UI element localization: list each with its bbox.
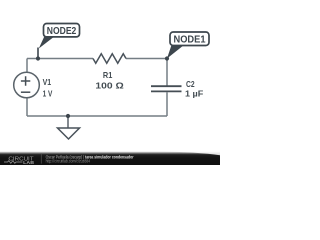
wire right vertical upper <box>166 59 168 86</box>
watermark bar right corner dip <box>158 151 220 155</box>
voltage source V1 <box>14 72 40 98</box>
svg-text:NODE1: NODE1 <box>174 35 206 46</box>
svg-text:http://circuitlab.com/c/zuz884: http://circuitlab.com/c/zuz884 <box>46 159 91 164</box>
ground junction <box>66 114 70 118</box>
svg-text:1 µF: 1 µF <box>185 89 203 99</box>
wire left vertical upper <box>26 59 28 73</box>
node flag NODE1 tail <box>167 45 184 59</box>
svg-text:LAB: LAB <box>23 160 34 165</box>
wire bottom segment <box>27 115 167 117</box>
svg-text:1 V: 1 V <box>43 89 53 99</box>
svg-text:NODE2: NODE2 <box>47 26 77 37</box>
node flag NODE2 tail <box>39 36 55 49</box>
svg-text:100 Ω: 100 Ω <box>95 81 124 91</box>
ground <box>67 116 69 128</box>
node flag NODE2 box <box>44 24 80 37</box>
svg-text:R1: R1 <box>103 70 113 80</box>
wire left vertical lower <box>26 98 28 116</box>
wire top-left segment <box>27 58 93 60</box>
wire top-right segment <box>126 58 167 60</box>
svg-text:V1: V1 <box>43 77 52 87</box>
capacitor C2 <box>151 86 182 91</box>
watermark logo resistor squiggle <box>4 161 22 164</box>
node A junction (NODE2) <box>36 56 40 60</box>
node flag NODE1 box <box>170 32 209 46</box>
resistor R1 <box>93 54 126 64</box>
watermark divider <box>40 154 42 164</box>
node B junction (NODE1) <box>165 56 169 60</box>
wire right vertical lower <box>166 92 168 116</box>
